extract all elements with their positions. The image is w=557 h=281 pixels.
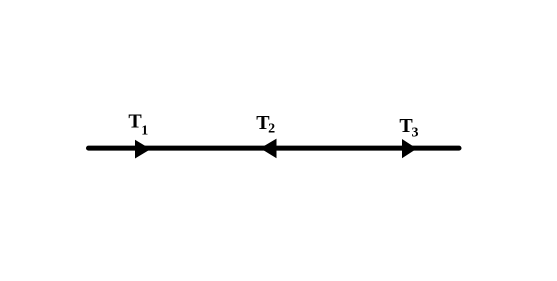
arrowhead T1 (points right) bbox=[135, 140, 151, 159]
arrowhead T2 (points left) bbox=[260, 139, 276, 159]
arrowhead T3 (points right) bbox=[402, 139, 417, 158]
label T1 bbox=[128, 111, 148, 139]
svg-text:1: 1 bbox=[141, 124, 148, 139]
svg-text:2: 2 bbox=[268, 122, 275, 137]
wire bbox=[89, 146, 460, 151]
label T2 bbox=[256, 112, 275, 137]
svg-text:3: 3 bbox=[412, 125, 419, 140]
label T3 bbox=[399, 115, 418, 140]
